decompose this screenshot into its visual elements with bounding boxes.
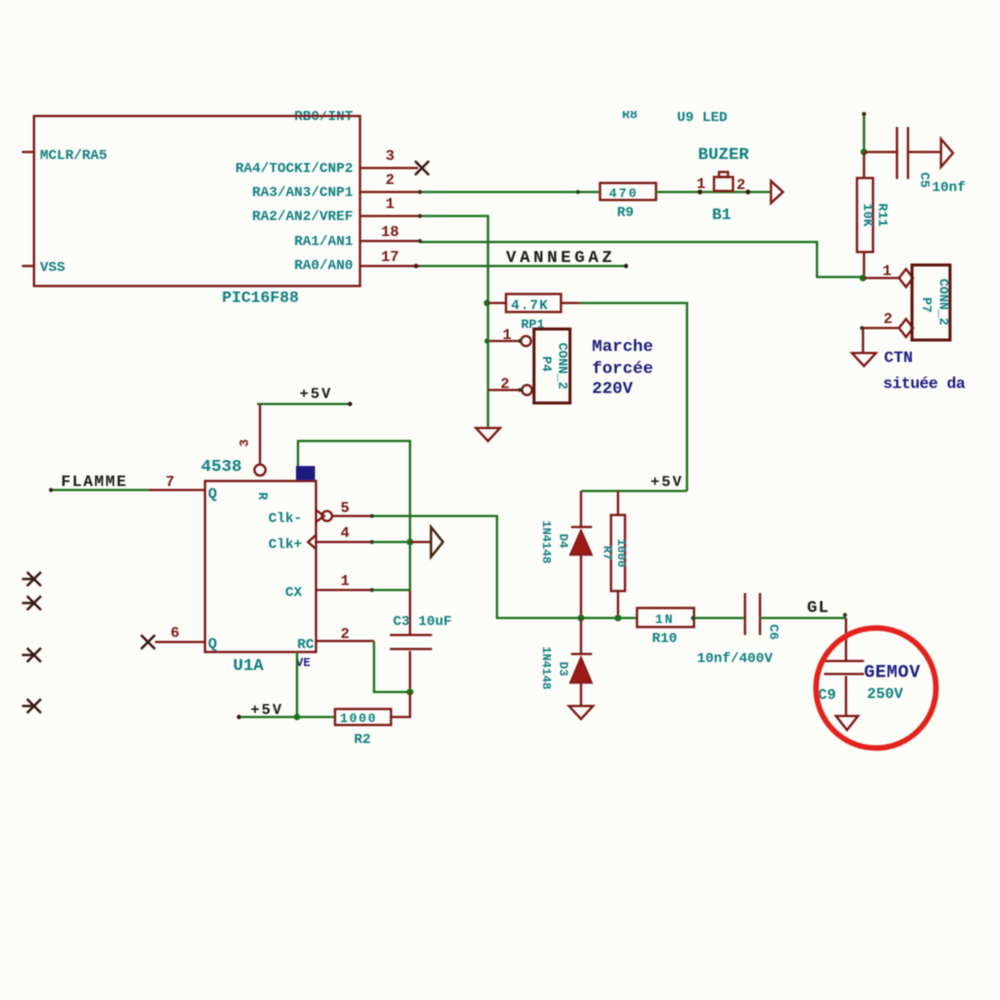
svg-text:GEMOV: GEMOV — [864, 663, 921, 683]
svg-text:Marche: Marche — [592, 338, 653, 357]
wire RA1 to R11 junction — [420, 242, 862, 277]
note situee da — [883, 375, 966, 393]
svg-text:10nf: 10nf — [932, 180, 966, 196]
resistor R2 — [335, 692, 410, 748]
junction RC/C3/R2 node — [407, 689, 414, 696]
svg-text:250V: 250V — [867, 686, 903, 703]
label VANNEGAZ wire — [414, 264, 628, 268]
svg-text:BUZER: BUZER — [698, 146, 750, 165]
capacitor C5 10nf — [864, 127, 966, 196]
svg-text:17: 17 — [381, 249, 399, 266]
junction cap/R11 — [861, 149, 868, 156]
svg-text:C5: C5 — [917, 172, 932, 188]
svg-text:4: 4 — [340, 525, 349, 542]
svg-text:2: 2 — [736, 177, 745, 194]
wire 4.7K to +5V rail — [580, 303, 687, 491]
label PIC16F88 — [222, 289, 299, 307]
svg-text:220V: 220V — [592, 380, 634, 399]
svg-text:D3: D3 — [556, 662, 570, 676]
svg-text:CTN: CTN — [884, 349, 913, 367]
svg-text:RA0/AN0: RA0/AN0 — [294, 258, 353, 274]
svg-text:470: 470 — [609, 186, 638, 201]
pin name MCLR/RA5 — [40, 148, 107, 164]
pin 2 RC of U1A — [297, 626, 374, 653]
svg-text:C9: C9 — [818, 687, 836, 704]
wire Clk- output to diode node — [373, 516, 637, 618]
resistor R7 — [600, 491, 628, 618]
svg-text:R: R — [255, 492, 270, 500]
svg-text:CONN_2: CONN_2 — [555, 343, 570, 390]
svg-text:D4: D4 — [556, 534, 570, 548]
hierarchical label arrow (buzzer out) — [771, 181, 783, 203]
svg-text:1: 1 — [882, 263, 891, 280]
svg-text:MCLR/RA5: MCLR/RA5 — [40, 148, 107, 164]
svg-text:RA2/AN2/VREF: RA2/AN2/VREF — [252, 209, 353, 225]
note CTN — [884, 349, 913, 367]
svg-text:VE: VE — [296, 656, 310, 670]
svg-text:R8: R8 — [622, 107, 638, 122]
svg-text:1N4148: 1N4148 — [539, 520, 553, 563]
svg-text:10nf/400V: 10nf/400V — [697, 651, 773, 667]
pin 7 of U1A — [148, 474, 205, 491]
svg-text:+5V: +5V — [650, 474, 683, 491]
svg-text:située da: située da — [883, 375, 966, 393]
pin name RA1/AN1 — [294, 234, 353, 250]
svg-text:2: 2 — [883, 311, 892, 328]
svg-text:B1: B1 — [712, 206, 731, 224]
no-connect X pins far left — [22, 572, 41, 713]
red annotation circle — [816, 628, 936, 748]
pin name RA4/TOCKI/CNP2 — [235, 161, 353, 177]
resistor R10 — [637, 608, 745, 647]
svg-text:RA1/AN1: RA1/AN1 — [294, 234, 353, 250]
no-connect X on pin 3 — [415, 161, 429, 175]
diode D4 — [539, 491, 592, 618]
ground under D3 — [569, 706, 593, 719]
navy IN block — [296, 466, 315, 480]
pin 1 CX of U1A — [285, 573, 373, 601]
svg-text:U9 LED: U9 LED — [677, 110, 727, 126]
svg-text:Q: Q — [208, 486, 217, 503]
wire loop from IN block to C3 — [298, 441, 410, 590]
connector P7 pin 2 — [863, 311, 913, 352]
junction R11 bottom — [860, 275, 867, 282]
svg-text:C6: C6 — [766, 624, 781, 640]
label VANNEGAZ — [506, 249, 616, 268]
svg-text:R9: R9 — [617, 205, 634, 221]
junction at 4.7K left — [484, 300, 490, 306]
pin 2 RA3 — [360, 172, 420, 192]
+5V power (top of U1A) — [257, 386, 352, 406]
junction Clk+ node — [407, 539, 414, 546]
svg-text:C3 10uF: C3 10uF — [393, 614, 452, 630]
svg-text:1: 1 — [385, 196, 394, 213]
svg-text:GL: GL — [807, 599, 829, 618]
connector P4 pin 2 — [488, 376, 532, 395]
pin 5 Clk- of U1A — [268, 500, 373, 527]
varistor C9 GEMOV — [818, 661, 921, 716]
svg-text:Clk+: Clk+ — [268, 537, 302, 553]
svg-text:7: 7 — [165, 474, 174, 491]
junction diode node — [578, 615, 585, 622]
+5V power (bottom) — [237, 702, 335, 719]
+5V power (middle rail) — [581, 474, 687, 491]
connector P4 pin 1 — [484, 327, 531, 346]
op-amp U1A body — [205, 481, 316, 652]
svg-text:18: 18 — [381, 224, 399, 241]
svg-text:2: 2 — [385, 172, 394, 189]
svg-text:10K: 10K — [860, 203, 875, 227]
junction R7 node — [615, 615, 622, 622]
svg-text:Clk-: Clk- — [268, 511, 302, 527]
hierarchical label arrow (U1A out) — [431, 527, 443, 557]
pin 17 RA0 — [360, 249, 420, 266]
svg-text:1: 1 — [696, 176, 705, 193]
ground under P7 pin 2 — [852, 353, 876, 366]
resistor RP1 4.7K — [488, 294, 580, 332]
svg-text:CX: CX — [285, 585, 302, 601]
buzzer B1 — [696, 172, 750, 224]
pin name RA0/AN0 — [294, 258, 353, 274]
pin 3 RA4 — [360, 148, 418, 168]
svg-text:CONN_2: CONN_2 — [936, 279, 951, 326]
svg-text:1N4148: 1N4148 — [539, 646, 553, 689]
resistor R11 — [857, 152, 890, 278]
svg-text:1N: 1N — [655, 612, 675, 627]
ground under C9 — [836, 716, 858, 730]
U1A 4538 reference — [201, 458, 242, 477]
label GL — [807, 599, 829, 618]
wire Clk+ to arrow — [373, 541, 431, 543]
wire RA2 down to P4 / ground — [420, 216, 488, 428]
pin name VSS — [40, 260, 65, 276]
wire RA3 to R9 — [420, 191, 600, 193]
pin 6 Q (bottom) of U1A — [155, 625, 217, 653]
pin name Q (top) — [208, 486, 217, 503]
svg-text:RA3/AN3/CNP1: RA3/AN3/CNP1 — [252, 185, 353, 201]
no-connect X on pin 6 — [141, 635, 155, 649]
svg-text:RA4/TOCKI/CNP2: RA4/TOCKI/CNP2 — [235, 161, 353, 177]
svg-text:+5V: +5V — [299, 386, 332, 403]
note Marche forcee 220V — [592, 338, 653, 399]
pin name RA3/AN3/CNP1 — [252, 185, 353, 201]
svg-text:5: 5 — [340, 500, 349, 517]
connector P7 body — [912, 265, 951, 340]
capacitor C6 — [697, 593, 781, 667]
svg-text:Q: Q — [208, 636, 217, 653]
svg-text:U1A: U1A — [233, 657, 264, 676]
resistor R9 — [600, 183, 656, 221]
clipped top text fragments — [294, 107, 727, 126]
capacitor C3 — [390, 590, 452, 692]
ground under P4 — [476, 428, 500, 441]
label BUZER — [698, 146, 750, 165]
svg-text:1000: 1000 — [340, 711, 377, 726]
svg-text:1000: 1000 — [614, 539, 628, 568]
label FLAMME — [49, 473, 148, 492]
svg-text:4.7K: 4.7K — [511, 298, 549, 314]
pin name RA2/AN2/VREF — [252, 209, 353, 225]
svg-text:6: 6 — [170, 625, 179, 642]
svg-text:forcée: forcée — [592, 360, 653, 379]
svg-text:3: 3 — [385, 148, 394, 165]
svg-text:R7: R7 — [600, 546, 614, 560]
svg-text:VANNEGAZ: VANNEGAZ — [506, 249, 616, 268]
reference U1A — [233, 657, 264, 676]
pin MCLR/RA5 stub — [22, 151, 34, 153]
navy VE text — [296, 656, 310, 670]
hierarchical label arrow (top right) — [941, 139, 953, 167]
wire CX to C3 top — [373, 589, 410, 591]
connector P4 body — [534, 329, 570, 403]
wire U1A VDD down to +5V rail — [296, 652, 298, 717]
pin 4 Clk+ of U1A — [268, 525, 373, 553]
wire top right vertical — [862, 112, 866, 152]
svg-text:3: 3 — [237, 439, 252, 447]
svg-text:VSS: VSS — [40, 260, 65, 276]
svg-text:4538: 4538 — [201, 458, 242, 477]
svg-text:R2: R2 — [354, 732, 371, 748]
svg-text:PIC16F88: PIC16F88 — [222, 289, 299, 307]
svg-text:P4: P4 — [539, 356, 554, 372]
svg-text:RC: RC — [297, 637, 314, 653]
IC U? PIC16F88 body — [34, 116, 360, 286]
diode D3 — [539, 618, 592, 706]
pin 3 R (reset) of U1A — [237, 404, 270, 500]
svg-text:R11: R11 — [875, 203, 890, 227]
svg-text:1: 1 — [340, 573, 349, 590]
pin-end dots — [370, 190, 864, 620]
connector P7 pin 1 — [863, 263, 913, 287]
pin VSS stub — [22, 265, 34, 267]
pin 18 RA1 — [360, 224, 420, 241]
svg-text:P7: P7 — [919, 297, 934, 313]
svg-text:R10: R10 — [652, 631, 677, 647]
wire C6 to GL corner — [760, 613, 847, 660]
pin 1 RA2 — [360, 196, 420, 216]
junction VDD rail — [294, 714, 300, 720]
wire RC down to R2 node — [374, 641, 410, 692]
svg-text:2: 2 — [340, 626, 349, 643]
svg-text:FLAMME: FLAMME — [61, 473, 128, 491]
wire R9 to B1 — [656, 191, 771, 193]
